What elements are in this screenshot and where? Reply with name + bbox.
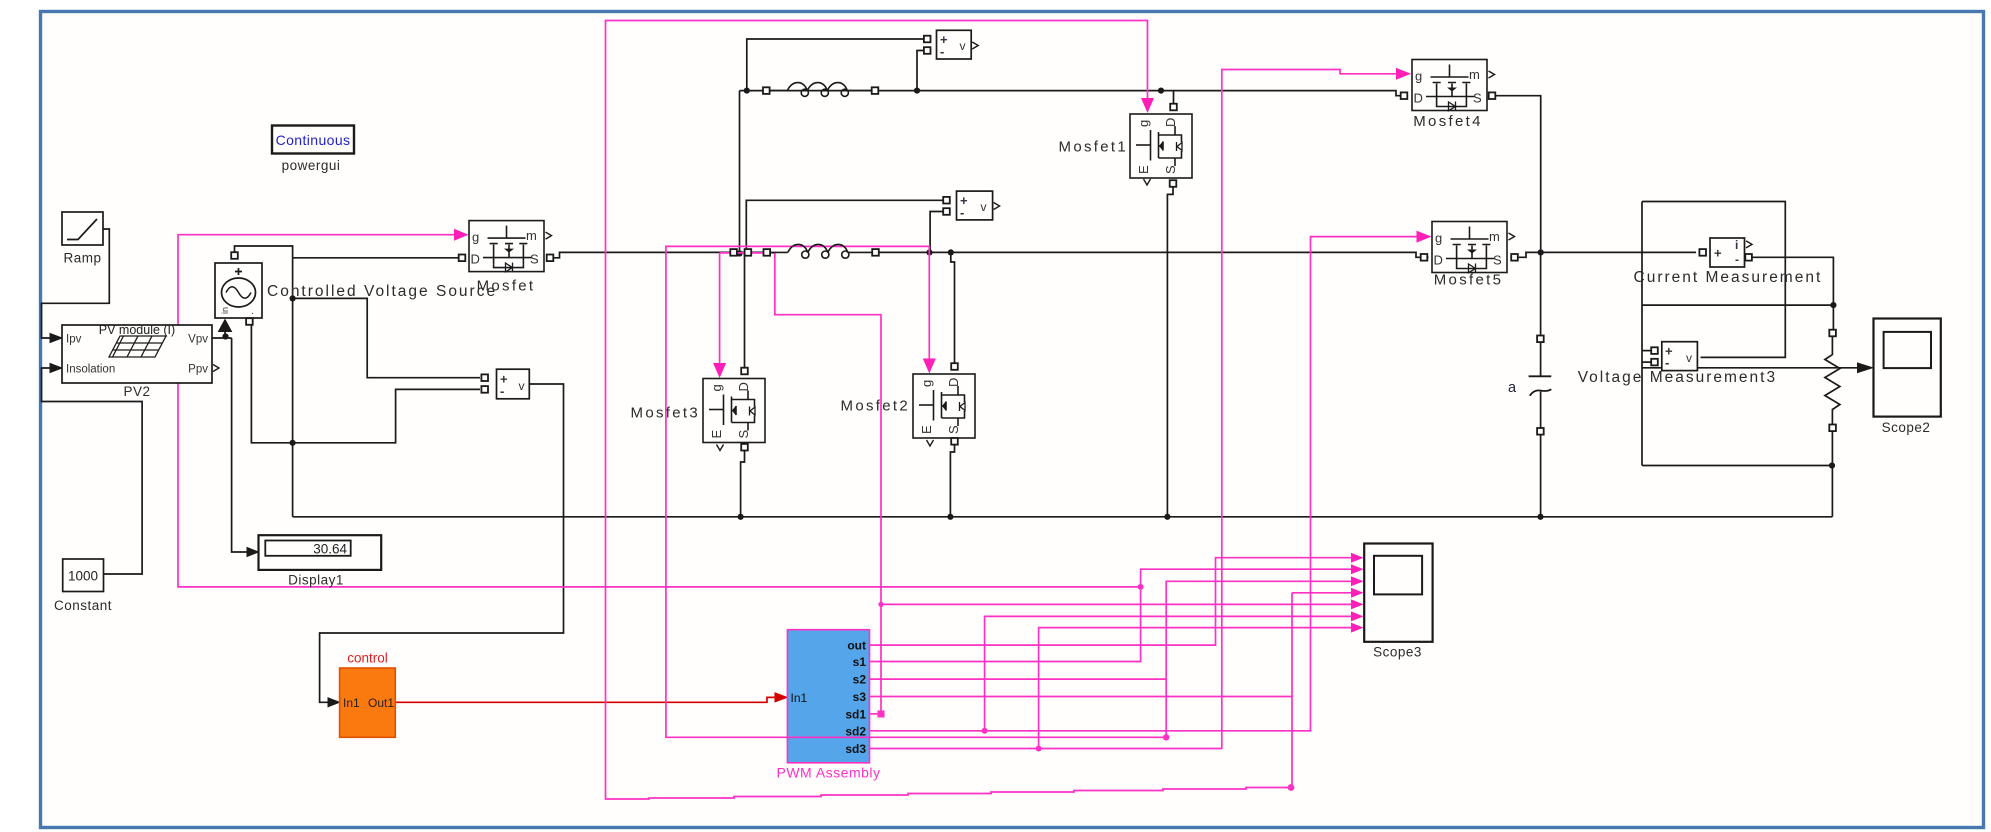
node row1 voltmeter plus junction xyxy=(744,88,750,94)
wire VM3 output loop top xyxy=(1642,202,1785,358)
wire Mosfet3 source down to ground bus xyxy=(741,450,745,516)
svg-text:Ipv: Ipv xyxy=(66,334,82,346)
node middle bus riser xyxy=(736,250,742,256)
svg-text:sd2: sd2 xyxy=(845,724,866,738)
svg-text:g: g xyxy=(1415,68,1422,83)
svg-text:Continuous: Continuous xyxy=(276,132,351,148)
wire Constant output to PV2 Insolation xyxy=(42,368,143,574)
wire PWM s2 to Scope3 in3 xyxy=(870,581,1352,737)
pink arrowhead into Mosfet4 gate xyxy=(1396,68,1411,80)
svg-text:in: in xyxy=(220,307,230,314)
pink arrowhead into Mosfet1 gate xyxy=(1141,98,1154,113)
node row1 voltmeter minus junction xyxy=(914,88,920,94)
pink arrowhead into Mosfet3 gate xyxy=(713,363,726,378)
wire bottom ground bus xyxy=(293,516,1833,518)
wire sd3 branch to Scope3 in7 xyxy=(1039,628,1351,749)
Constant block xyxy=(63,559,104,592)
powergui block xyxy=(272,126,354,154)
svg-text:Out1: Out1 xyxy=(368,696,394,710)
wire CVS minus to voltage measurement minus xyxy=(293,389,480,442)
wire Mosfet5 drain jog xyxy=(1421,256,1429,258)
svg-text:1000: 1000 xyxy=(68,569,98,584)
Display1 block xyxy=(259,535,382,570)
Mosfet3 block xyxy=(703,379,765,443)
svg-text:m: m xyxy=(1489,229,1500,244)
svg-text:S: S xyxy=(736,430,751,439)
svg-text:Voltage Measurement3: Voltage Measurement3 xyxy=(1578,369,1777,386)
svg-text:E: E xyxy=(709,430,724,439)
node ground bus Mosfet3 xyxy=(738,514,744,520)
Current Measurement block xyxy=(1710,238,1745,267)
Voltage Measurement row2 block xyxy=(957,191,993,220)
svg-text:-: - xyxy=(1665,355,1669,370)
svg-text:m: m xyxy=(526,228,537,243)
node output plus rail junction xyxy=(1830,302,1836,308)
svg-text:Display1: Display1 xyxy=(288,573,344,588)
svg-text:Mosfet3: Mosfet3 xyxy=(631,405,700,422)
node ground bus Mosfet2 xyxy=(947,514,953,520)
svg-text:D: D xyxy=(1163,118,1178,127)
wire output plus rail to VM3 xyxy=(1642,304,1833,306)
wire VM3 vertical rail xyxy=(1641,202,1643,466)
PWM Assembly block xyxy=(787,630,869,763)
Mosfet1 block xyxy=(1130,114,1192,178)
control block (orange subsystem) xyxy=(340,668,396,737)
svg-text:S: S xyxy=(946,425,961,434)
svg-text:S: S xyxy=(1493,252,1502,267)
wire sd1 branch to Scope3 in5 xyxy=(881,603,1351,605)
wire Mosfet4 source to output node xyxy=(1495,96,1541,253)
node sd2 scope branch xyxy=(982,728,988,734)
wire sd1 riser xyxy=(720,253,881,714)
wire PWM out to Scope3 in1 xyxy=(870,558,1352,645)
wire output node to current measurement plus xyxy=(1541,251,1696,253)
svg-text:control: control xyxy=(347,651,388,666)
svg-text:s1: s1 xyxy=(853,655,867,669)
wire top bus xyxy=(740,91,1402,96)
node CVS plus branch xyxy=(290,295,296,301)
node row2 bus Mosfet2 junction xyxy=(948,249,954,255)
Voltage Measurement3 block xyxy=(1662,342,1698,371)
svg-text:D: D xyxy=(946,378,961,387)
svg-text:m: m xyxy=(1469,67,1480,82)
svg-text:+: + xyxy=(1714,246,1722,261)
svg-text:S: S xyxy=(1163,165,1178,174)
wire ground return bottom right xyxy=(1642,431,1832,517)
wire row2 voltmeter minus drop xyxy=(930,212,943,253)
Mosfet4 block xyxy=(1412,60,1487,112)
svg-text:In1: In1 xyxy=(791,691,808,705)
inductor L1 row1 xyxy=(766,83,875,97)
pink arrowhead into Mosfet2 gate xyxy=(923,359,936,374)
svg-text:Constant: Constant xyxy=(54,598,112,613)
wire CVS plus terminal riser xyxy=(235,246,293,443)
node output junction xyxy=(1538,249,1544,255)
wire Ramp output to PV2 Ipv xyxy=(42,229,110,338)
svg-text:Vpv: Vpv xyxy=(188,334,208,346)
wire Mosfet S to middle bus xyxy=(553,252,765,257)
capacitor C plates xyxy=(1529,373,1552,396)
node row2 voltmeter minus junction xyxy=(926,249,932,255)
svg-text:E: E xyxy=(1136,165,1151,174)
svg-text:g: g xyxy=(919,380,934,387)
svg-text:out: out xyxy=(847,639,866,653)
wire CVS plus to Mosfet D xyxy=(293,257,459,259)
svg-text:Mosfet5: Mosfet5 xyxy=(1434,272,1503,289)
wire PWM sd2 to Mosfet5 gate xyxy=(870,237,1419,731)
PV Voltage Measurement block xyxy=(497,369,530,399)
wire middle bus to row2 voltmeter plus xyxy=(746,200,943,252)
inductor L2 row2 xyxy=(767,244,876,258)
node top bus Mosfet1 junction xyxy=(1158,88,1164,94)
svg-text:D: D xyxy=(471,252,480,267)
node CVS minus junction xyxy=(290,440,296,446)
svg-text:In1: In1 xyxy=(343,696,360,710)
wire PWM s3 right xyxy=(870,696,1293,698)
Ramp block xyxy=(62,212,103,245)
svg-text:Ramp: Ramp xyxy=(63,251,101,266)
svg-text:sd3: sd3 xyxy=(845,742,866,756)
svg-text:powergui: powergui xyxy=(282,158,341,173)
svg-text:D: D xyxy=(736,382,751,391)
svg-text:sd1: sd1 xyxy=(845,707,866,721)
svg-text:.: . xyxy=(251,306,254,317)
Scope2 block xyxy=(1874,319,1941,417)
pink arrowheads into Scope3 xyxy=(1351,553,1364,563)
svg-text:Current Measurement: Current Measurement xyxy=(1634,269,1823,286)
wire sd2 branch over PWM block to Mosfet2 gate xyxy=(666,246,1166,737)
svg-text:g: g xyxy=(1435,230,1442,245)
node ground bus capacitor xyxy=(1537,514,1543,520)
resistor R load zigzag xyxy=(1825,336,1840,425)
pink arrowhead into Mosfet5 gate xyxy=(1417,231,1432,243)
Scope3 block xyxy=(1364,544,1432,642)
svg-text:PV module (I): PV module (I) xyxy=(99,323,175,337)
svg-text:v: v xyxy=(519,379,525,393)
wire CVS plus to voltage measurement plus xyxy=(293,298,480,377)
wire row2 bus right of inductor xyxy=(876,252,1422,257)
wire s1 branch to Mosfet gate xyxy=(178,235,1141,587)
Controlled Voltage Source block xyxy=(215,263,262,318)
svg-text:Mosfet4: Mosfet4 xyxy=(1413,113,1482,130)
wire Mosfet1 source down to ground bus xyxy=(1167,187,1173,517)
svg-text:PWM Assembly: PWM Assembly xyxy=(776,765,880,781)
wire sd2 branch to Scope3 in6 xyxy=(985,616,1351,730)
svg-text:Ppv: Ppv xyxy=(188,364,208,376)
wire top bus to row1 voltmeter plus xyxy=(747,39,924,91)
svg-text:i: i xyxy=(1735,238,1738,252)
wire PWM s1 to Scope3 in2 xyxy=(870,569,1352,661)
black arrowheads xyxy=(50,334,62,343)
svg-text:Mosfet: Mosfet xyxy=(477,278,536,295)
svg-text:Scope3: Scope3 xyxy=(1373,645,1422,660)
svg-text:g: g xyxy=(709,384,724,391)
svg-text:g: g xyxy=(1136,120,1151,127)
svg-text:PV2: PV2 xyxy=(123,384,150,399)
wire s3 riser to Scope3 in4 xyxy=(1292,593,1351,788)
Voltage Measurement row1 block xyxy=(937,30,972,59)
svg-text:s3: s3 xyxy=(853,690,867,704)
node resistor bottom junction xyxy=(1829,462,1835,468)
wire VM3 plus stub xyxy=(1642,350,1651,352)
svg-text:s2: s2 xyxy=(853,673,867,687)
Mosfet5 block xyxy=(1432,222,1507,274)
wire Mosfet2 drain drop from row2 bus xyxy=(951,252,955,363)
svg-text:v: v xyxy=(981,200,987,214)
svg-text:D: D xyxy=(1414,90,1423,105)
wire Mosfet2 source down to ground bus xyxy=(950,445,954,517)
svg-text:S: S xyxy=(1473,90,1482,105)
wire PV2 Vpv branch to Display1 xyxy=(232,338,247,552)
wire PWM sd1 stub xyxy=(870,713,882,715)
wire VM3 minus stub xyxy=(1642,361,1651,363)
svg-text:30.64: 30.64 xyxy=(313,542,347,557)
wire PWM sd3 to riser xyxy=(870,70,1400,749)
wire middle bus riser to top bus xyxy=(739,91,741,253)
PV module block PV2 xyxy=(62,325,212,383)
Mosfet2 block xyxy=(913,374,975,438)
wire PV2 Vpv to Controlled Voltage Source input xyxy=(212,330,232,338)
svg-text:-: - xyxy=(940,44,944,59)
wire ground bus left riser xyxy=(292,443,294,517)
svg-text:Mosfet1: Mosfet1 xyxy=(1059,139,1128,156)
wire Mosfet5 source to output node xyxy=(1518,252,1541,257)
pink arrowhead into Mosfet gate xyxy=(454,229,469,241)
port squares xyxy=(231,36,1836,451)
wire capacitor branch xyxy=(1540,252,1542,373)
node sd1 scope branch xyxy=(878,602,883,607)
node s3 bottom junction xyxy=(1288,784,1295,791)
svg-text:v: v xyxy=(960,39,966,53)
wire control Out1 to PWM In1 (red) xyxy=(395,697,775,702)
node ground bus Mosfet1 xyxy=(1164,514,1170,520)
svg-text:a: a xyxy=(1508,380,1517,396)
node Vpv branch junction xyxy=(222,333,228,339)
wire current measurement minus to resistor top xyxy=(1752,257,1834,330)
wire Mosfet1 drain from top bus xyxy=(1173,91,1175,103)
svg-text:Scope2: Scope2 xyxy=(1882,420,1931,435)
svg-text:S: S xyxy=(530,252,539,267)
svg-text:g: g xyxy=(472,230,479,245)
node s1 branch junction xyxy=(1138,584,1144,590)
node sd1 stub end xyxy=(878,711,885,718)
svg-text:Mosfet2: Mosfet2 xyxy=(841,398,910,415)
wire VM3 signal to Scope2 xyxy=(1642,367,1858,369)
svg-text:E: E xyxy=(919,425,934,434)
node sd3 scope branch xyxy=(1036,746,1042,752)
wire middle bus down to Mosfet3 drain xyxy=(744,252,746,368)
svg-text:-: - xyxy=(500,384,504,399)
svg-text:-: - xyxy=(960,205,964,220)
wire CVS minus terminal down xyxy=(251,322,292,443)
svg-text:Insolation: Insolation xyxy=(66,364,115,376)
wire row1 voltmeter minus drop xyxy=(917,51,924,91)
wire PV voltage measurement output to control In1 xyxy=(320,384,564,702)
svg-text:v: v xyxy=(1686,351,1692,365)
svg-text:Controlled Voltage Source: Controlled Voltage Source xyxy=(267,283,497,300)
svg-text:D: D xyxy=(1434,252,1443,267)
svg-text:-: - xyxy=(1735,253,1739,267)
wire s3 long loop to Mosfet1 gate xyxy=(606,21,1293,800)
Mosfet block xyxy=(469,221,544,273)
